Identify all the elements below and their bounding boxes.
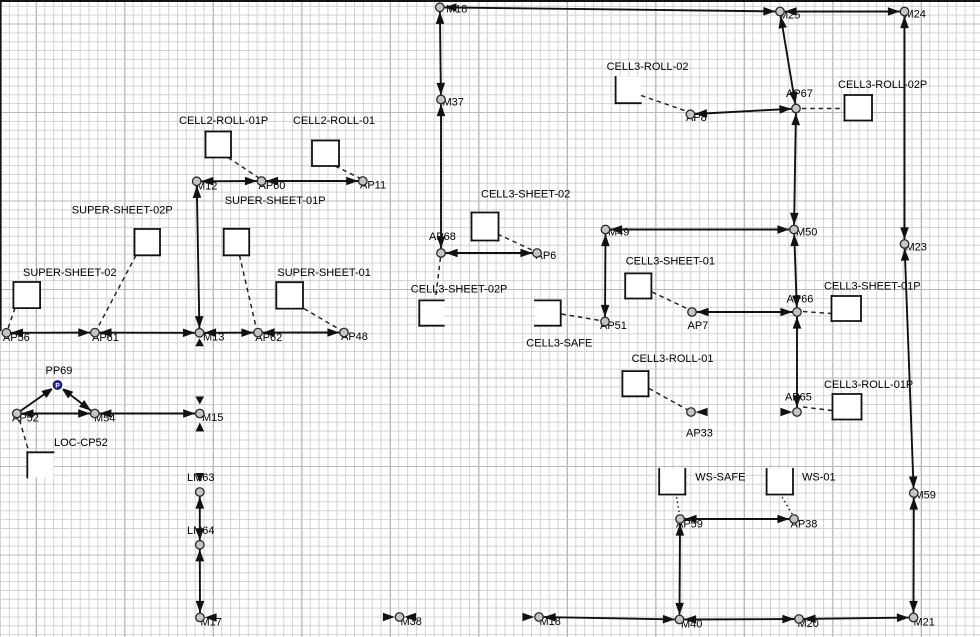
link SUPER-SHEET-02 to AP56 — [8, 308, 15, 329]
node M17 — [196, 613, 205, 622]
node AP68 — [437, 249, 446, 258]
path AP60-AP11 — [266, 177, 358, 186]
path AP67-M50 — [790, 113, 800, 225]
link AP68 to CELL3-SHEET-02P — [436, 258, 441, 299]
svg-text:M18: M18 — [446, 4, 467, 16]
path M13-M15 — [195, 338, 204, 404]
svg-text:AP66: AP66 — [787, 294, 814, 306]
link CELL3-SHEET-01 to AP7 — [652, 292, 688, 309]
node M13 — [195, 329, 204, 338]
canvas left border — [0, 0, 2, 331]
svg-text:P: P — [55, 383, 60, 390]
path M37-AP68 — [437, 104, 446, 248]
node M21 — [909, 613, 918, 622]
location LOC-CP52 — [26, 451, 54, 478]
location WS-SAFE — [658, 468, 686, 495]
node AP8 — [686, 110, 695, 119]
node M24 — [900, 7, 909, 16]
path LM64-M17 — [196, 549, 205, 613]
svg-text:LOC-CP52: LOC-CP52 — [54, 437, 108, 449]
svg-text:AP33: AP33 — [686, 428, 713, 440]
location CELL2-ROLL-01 — [311, 140, 340, 167]
svg-text:CELL2-ROLL-01P: CELL2-ROLL-01P — [179, 115, 268, 127]
canvas top border — [0, 0, 980, 2]
svg-text:CELL3-ROLL-02P: CELL3-ROLL-02P — [838, 79, 927, 91]
link CELL3-ROLL-01 to AP33 — [649, 389, 687, 410]
path M18t-M25 — [444, 3, 775, 15]
node AP60 — [257, 177, 266, 186]
svg-text:M50: M50 — [796, 227, 817, 239]
link CELL3-SHEET-02 to AP6 — [498, 234, 534, 251]
path M40-M20 — [684, 615, 794, 624]
svg-text:SUPER-SHEET-02P: SUPER-SHEET-02P — [72, 205, 173, 217]
node M49 — [601, 225, 610, 234]
link SUPER-SHEET-01 to AP48 — [304, 309, 341, 330]
node AP59 — [676, 515, 685, 524]
node AP52 — [13, 409, 22, 418]
path M18b-M40 — [544, 613, 675, 624]
path M38-M18b — [404, 613, 534, 622]
svg-text:SUPER-SHEET-02: SUPER-SHEET-02 — [23, 267, 117, 279]
path M17-M38 — [205, 613, 395, 622]
svg-text:WS-SAFE: WS-SAFE — [695, 472, 745, 484]
node AP6 — [533, 249, 542, 258]
path LM63-LM64 — [196, 497, 205, 541]
location CELL3-ROLL-02 — [615, 76, 642, 104]
node AP56 — [2, 329, 11, 338]
node M15 — [196, 409, 205, 418]
node AP67 — [792, 104, 801, 113]
node PP69 (parking) — [51, 378, 65, 392]
svg-text:WS-01: WS-01 — [802, 472, 836, 484]
path M12-AP60 — [201, 177, 257, 186]
path AP7-AP66 — [697, 308, 793, 317]
path M24-M23 — [900, 16, 909, 239]
path M25-AP67 — [779, 16, 798, 104]
path M20-M21 — [804, 613, 909, 623]
node M54 — [91, 409, 100, 418]
path AP68-AP6 — [446, 249, 533, 258]
svg-text:CELL3-SHEET-02P: CELL3-SHEET-02P — [411, 284, 508, 296]
svg-text:AP7: AP7 — [688, 320, 709, 332]
path AP61-M13 — [100, 328, 195, 337]
node AP11 — [359, 177, 368, 186]
location CELL3-SHEET-02 — [471, 212, 500, 242]
link WS-01 to AP38 — [782, 497, 793, 515]
node AP38 — [790, 515, 799, 524]
node M38 — [395, 613, 404, 622]
path PP69-M54 — [61, 388, 91, 411]
node AP51 — [601, 317, 610, 326]
svg-text:CELL3-ROLL-02: CELL3-ROLL-02 — [607, 61, 689, 73]
path AP52-PP69 — [21, 388, 54, 411]
path AP33-AP65 — [696, 408, 793, 417]
node M59 — [910, 489, 919, 498]
node M37 — [437, 95, 446, 104]
node M20 — [795, 615, 804, 624]
link AP66 to CELL3-SHEET-01P — [803, 312, 831, 314]
link AP65 to CELL3-ROLL-01P — [803, 407, 832, 411]
path M15-LM63 — [196, 423, 205, 483]
location SUPER-SHEET-02P — [134, 228, 161, 256]
node M40 — [675, 615, 684, 624]
svg-text:CELL3-ROLL-01: CELL3-ROLL-01 — [632, 353, 714, 365]
svg-text:CELL2-ROLL-01: CELL2-ROLL-01 — [293, 115, 375, 127]
link WS-SAFE to AP59 — [677, 497, 680, 515]
node LM63 — [196, 488, 205, 497]
node M23 — [900, 240, 909, 249]
node AP62 — [254, 328, 263, 337]
path M54-M15 — [99, 409, 195, 418]
node LM64 — [196, 541, 205, 550]
svg-text:CELL3-ROLL-01P: CELL3-ROLL-01P — [824, 379, 913, 391]
link SUPER-SHEET-01P to AP62 — [240, 255, 257, 329]
path M12-M13 — [193, 186, 204, 328]
node AP33 — [687, 408, 696, 417]
location SUPER-SHEET-01 — [275, 281, 304, 309]
location CELL3-SAFE — [534, 300, 562, 327]
svg-text:CELL3-SHEET-01: CELL3-SHEET-01 — [626, 256, 715, 268]
link AP52 to LOC-CP52 — [20, 420, 29, 451]
path AP52-M54 — [21, 409, 90, 418]
node AP48 — [340, 328, 349, 337]
path M23-M59 — [901, 249, 918, 489]
node AP7 — [688, 308, 697, 317]
location CELL3-ROLL-01 — [622, 370, 650, 397]
svg-text:SUPER-SHEET-01P: SUPER-SHEET-01P — [225, 195, 326, 207]
link AP67 to CELL3-ROLL-02P — [802, 108, 844, 110]
location CELL2-ROLL-01P — [205, 131, 232, 159]
path M18t-M37 — [436, 12, 445, 95]
svg-text:CELL3-SHEET-02: CELL3-SHEET-02 — [481, 189, 570, 201]
location SUPER-SHEET-01P — [223, 228, 250, 256]
node AP65 — [793, 408, 802, 417]
location CELL3-SHEET-01P — [831, 295, 862, 322]
link CELL2-ROLL-01P to AP60 — [228, 158, 259, 179]
link CELL3-ROLL-02 to AP8 — [641, 96, 686, 112]
svg-text:CELL3-SAFE: CELL3-SAFE — [526, 338, 592, 350]
path AP8-AP67 — [695, 105, 791, 118]
path M50-AP66 — [790, 234, 800, 307]
location WS-01 — [766, 468, 794, 495]
location CELL3-SHEET-02P — [418, 300, 444, 327]
link SUPER-SHEET-02P to AP61 — [97, 255, 136, 329]
path M25-M24 — [785, 7, 900, 16]
path M13-AP62 — [204, 328, 253, 337]
path M49-AP51 — [601, 234, 610, 317]
location SUPER-SHEET-02 — [13, 281, 42, 309]
location CELL3-SHEET-01 — [624, 273, 652, 300]
node M25 — [776, 7, 785, 16]
link CELL3-SAFE to AP51 — [562, 314, 601, 321]
node M50 — [790, 225, 799, 234]
node AP66 — [793, 308, 802, 317]
svg-text:PP69: PP69 — [46, 365, 73, 377]
path AP59-M40 — [675, 524, 684, 615]
path AP62-AP48 — [263, 328, 340, 337]
path AP59-AP38 — [685, 515, 790, 524]
link CELL2-ROLL-01 to AP11 — [335, 166, 361, 179]
location CELL3-ROLL-02P — [844, 94, 873, 121]
svg-text:SUPER-SHEET-01: SUPER-SHEET-01 — [277, 267, 371, 279]
svg-text:M15: M15 — [202, 412, 223, 424]
node AP61 — [91, 328, 100, 337]
node M12 — [192, 177, 201, 186]
location CELL3-ROLL-01P — [832, 393, 863, 420]
path AP56-AP61 — [11, 328, 90, 337]
path AP66-AP65 — [793, 317, 802, 408]
path M59-M21 — [909, 498, 918, 613]
path M49-M50 — [610, 225, 789, 234]
node M18t — [436, 3, 445, 12]
node M18b — [535, 613, 544, 622]
